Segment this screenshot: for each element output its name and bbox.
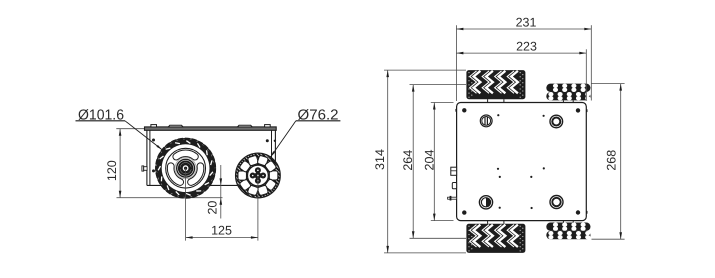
svg-text:204: 204 (422, 150, 436, 171)
bottom-right ring hole (550, 196, 563, 209)
plate left-edge switch and connector (448, 167, 457, 200)
rear-right mecanum wheel (top view) (546, 223, 590, 240)
svg-text:268: 268 (605, 150, 619, 171)
ground line (117, 197, 223, 199)
diameter label 76.2 with leader (271, 108, 341, 158)
dimension 264 (tire centre track) (401, 85, 466, 239)
dimension 125 (axle spacing) (186, 223, 258, 239)
mecanum centre extension line (257, 176, 259, 241)
axle connector ticks (488, 99, 574, 224)
top-view base plate (457, 103, 587, 221)
svg-text:125: 125 (211, 223, 232, 237)
dimension 20 (ground clearance) (205, 165, 222, 219)
top-right ring hole (550, 115, 563, 128)
top-left slotted hole (480, 115, 492, 127)
svg-text:264: 264 (401, 150, 415, 171)
svg-text:231: 231 (516, 16, 537, 30)
dimension 268 (mecanum outer track) (592, 84, 625, 240)
plate corner screws (462, 108, 580, 215)
svg-text:223: 223 (516, 40, 537, 54)
diameter label 101.6 with leader (76, 108, 163, 150)
tire wheel side view (Ø101.6) (156, 139, 215, 198)
plate small holes (497, 114, 545, 209)
motor shaft (left of chassis) (142, 166, 147, 171)
svg-text:120: 120 (105, 160, 119, 181)
front-right mecanum wheel (top view) (546, 84, 590, 101)
svg-text:314: 314 (373, 149, 387, 170)
front-left tire (top view) (466, 70, 525, 99)
plate edge bumps (455, 109, 587, 214)
dimension 223 (plate width) (456, 40, 586, 101)
chassis screw dots (152, 139, 276, 173)
mecanum wheel side view (Ø76.2) (236, 153, 281, 198)
dimension 204 (plate depth) (422, 103, 453, 221)
dimension 120 (chassis height to ground) (105, 129, 147, 198)
dimension 231 (overall width) (456, 16, 591, 102)
bottom-left hole (half filled) (479, 196, 492, 209)
svg-text:20: 20 (205, 201, 219, 215)
rear-left tire (top view) (466, 224, 525, 253)
dimension 314 (tire outer track) (373, 70, 466, 253)
tire centre extension line (185, 168, 187, 240)
side-view chassis body (145, 125, 277, 186)
